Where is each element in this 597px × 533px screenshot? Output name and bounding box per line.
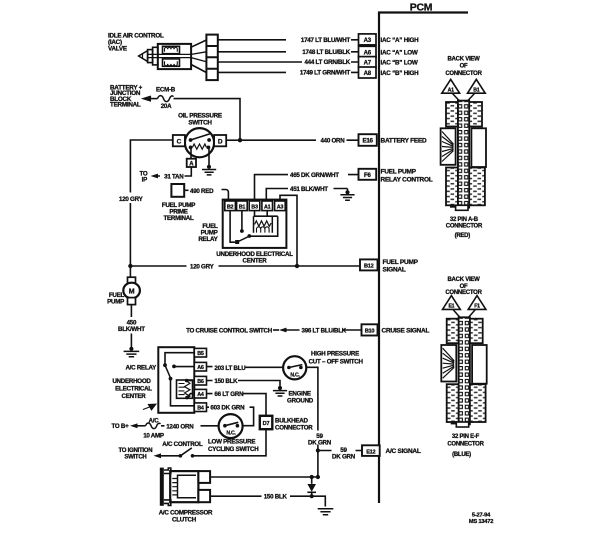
A/C relay coil [177, 379, 195, 400]
relay terminal B4 [194, 403, 206, 412]
PCM terminal E16 BATTERY FEED [359, 134, 428, 146]
svg-text:BULKHEAD: BULKHEAD [275, 417, 308, 424]
ground below oil pressure switch [202, 149, 216, 175]
wire 451 BLK/WHT from relay A1 to ground [266, 186, 347, 201]
32 pin A-B connector body [441, 101, 486, 211]
svg-text:1749 LT GRN/WHT: 1749 LT GRN/WHT [300, 70, 351, 77]
wire A to 31 TAN / TO IP [140, 167, 192, 184]
svg-text:A/C: A/C [149, 417, 160, 424]
svg-text:SIGNAL: SIGNAL [383, 267, 406, 274]
svg-text:D: D [218, 139, 223, 146]
terminal D [214, 135, 226, 146]
wire 1747 LT BLU/WHT to A3 [218, 37, 359, 44]
wire D7 to A/C control switch [194, 430, 266, 456]
svg-text:IAC “A” HIGH: IAC “A” HIGH [381, 37, 420, 44]
node diode bottom [310, 494, 314, 498]
svg-text:M: M [129, 289, 135, 296]
svg-text:F1: F1 [474, 304, 480, 310]
PCM boundary line [379, 13, 468, 504]
ground for 451 BLK/WHT [340, 189, 354, 201]
arrow to battery junction [144, 96, 152, 101]
svg-text:B1: B1 [473, 87, 479, 93]
PCM terminal B10 CRUISE SIGNAL [362, 324, 430, 335]
terminal C [173, 135, 185, 146]
svg-text:(RED): (RED) [455, 233, 471, 239]
svg-text:32 PIN E-F: 32 PIN E-F [452, 434, 480, 440]
back view of connector label (A-B) [445, 57, 482, 77]
svg-text:CONNECTOR: CONNECTOR [445, 71, 482, 77]
underhood electrical center label (A/C) [112, 378, 152, 400]
wire D to battery junction node [226, 139, 240, 141]
node A3/120 GRY junction [295, 264, 299, 268]
A/C relay box [158, 347, 194, 413]
wire 490 RED hook to relay B2 [222, 190, 229, 202]
relay internal switch [230, 211, 278, 244]
svg-text:UNDERHOOD: UNDERHOOD [112, 378, 151, 385]
oil pressure switch label [178, 112, 222, 126]
wire 150 BLK from clutch to ground [210, 494, 325, 507]
wire 203 LT BLU [207, 365, 284, 372]
svg-text:IAC “B” LOW: IAC “B” LOW [381, 60, 418, 67]
svg-text:IAC “A” LOW: IAC “A” LOW [381, 49, 418, 56]
svg-text:66 LT GRN: 66 LT GRN [214, 391, 244, 398]
svg-text:A3: A3 [364, 38, 372, 44]
PCM terminal A7 [359, 57, 418, 68]
node battery feed junction [238, 138, 242, 142]
svg-text:A/C CONTROL: A/C CONTROL [162, 441, 203, 448]
svg-text:203 LT BLU: 203 LT BLU [214, 365, 246, 372]
59 DK GRN label (vertical run) [308, 433, 332, 447]
svg-text:ENGINE: ENGINE [289, 390, 311, 397]
svg-text:120 GRY: 120 GRY [190, 264, 215, 271]
svg-text:A6: A6 [364, 50, 372, 56]
svg-text:RELAY: RELAY [198, 236, 218, 243]
svg-text:A/C COMPRESSOR: A/C COMPRESSOR [159, 510, 213, 517]
wire 1749 LT GRN/WHT to A8 [218, 70, 359, 77]
svg-text:A1: A1 [448, 87, 454, 93]
svg-text:CYCLING SWITCH: CYCLING SWITCH [208, 446, 259, 453]
svg-text:SWITCH: SWITCH [124, 454, 146, 460]
svg-text:20A: 20A [161, 103, 172, 110]
svg-text:E1: E1 [448, 304, 454, 310]
svg-text:BACK VIEW: BACK VIEW [447, 277, 480, 283]
low pressure cycling switch [208, 414, 259, 453]
svg-text:VALVE: VALVE [108, 45, 127, 52]
A/C fuse 10 AMP and TO B+ [111, 417, 218, 439]
svg-text:603 DK GRN: 603 DK GRN [210, 405, 245, 412]
svg-text:F6: F6 [364, 173, 371, 179]
svg-text:B5: B5 [197, 351, 204, 357]
PCM terminal B12 FUEL PUMP SIGNAL [360, 259, 419, 274]
fuse ECM-B 20A [152, 86, 176, 110]
wire 150 BLK to engine ground [207, 378, 281, 387]
relay terminal B3 [249, 201, 260, 211]
high pressure cut-off switch [283, 351, 363, 380]
svg-text:LOW PRESSURE: LOW PRESSURE [208, 438, 255, 445]
svg-text:HIGH PRESSURE: HIGH PRESSURE [311, 351, 359, 358]
PCM terminal A8 [359, 67, 420, 78]
svg-text:FUEL PUMP: FUEL PUMP [381, 168, 417, 175]
svg-text:A6: A6 [197, 365, 204, 371]
PCM terminal F6 FUEL PUMP RELAY CONTROL [359, 168, 433, 183]
svg-text:A8: A8 [364, 71, 372, 77]
wire 396 LT BLU/BLK to cruise control switch [186, 328, 361, 335]
A/C relay internal switch [163, 353, 194, 406]
A/C control switch [162, 441, 203, 457]
fuel pump motor [107, 266, 140, 305]
svg-text:GROUND: GROUND [287, 397, 314, 404]
svg-text:CRUISE SIGNAL: CRUISE SIGNAL [382, 328, 430, 335]
A/C compressor clutch [159, 468, 213, 524]
svg-text:E12: E12 [366, 449, 375, 455]
svg-text:5-27-94: 5-27-94 [472, 513, 491, 519]
svg-text:C: C [177, 139, 182, 146]
svg-text:CONNECTOR: CONNECTOR [446, 223, 483, 229]
fuel pump relay label [198, 223, 218, 243]
svg-text:444 LT GRN/BLK: 444 LT GRN/BLK [304, 59, 350, 66]
32 pin A-B connector caption [446, 217, 483, 239]
relay terminal B2 [225, 201, 236, 211]
svg-text:CUT – OFF SWITCH: CUT – OFF SWITCH [309, 359, 364, 366]
svg-text:A/C SIGNAL: A/C SIGNAL [386, 448, 421, 455]
svg-text:1748 LT BLU/BLK: 1748 LT BLU/BLK [302, 49, 350, 56]
svg-text:SWITCH: SWITCH [188, 119, 212, 126]
PCM terminal A6 [359, 46, 418, 57]
svg-text:10 AMP: 10 AMP [143, 432, 164, 439]
wire 59 DK GRN to E12 [318, 447, 362, 460]
svg-text:N.C.: N.C. [290, 372, 300, 378]
idle air control valve label [108, 33, 164, 53]
svg-text:DK GRN: DK GRN [332, 453, 356, 460]
svg-text:OF: OF [460, 64, 468, 70]
pin E1 pointer triangle [443, 296, 461, 310]
relay coil [254, 211, 278, 233]
svg-text:1240 ORN: 1240 ORN [166, 423, 194, 430]
relay terminal B1 [237, 201, 248, 211]
relay terminal B6 [194, 376, 206, 385]
svg-text:(BLUE): (BLUE) [452, 452, 471, 458]
wire 440 ORN to E16 [240, 138, 359, 145]
pointer leader lines [453, 310, 475, 319]
relay terminal A4 [194, 389, 206, 398]
svg-text:CLUTCH: CLUTCH [172, 517, 197, 524]
wire fuse to battery-feed vertical [174, 99, 241, 141]
svg-text:CONNECTOR: CONNECTOR [447, 441, 484, 447]
diode across clutch [307, 477, 316, 496]
fuel pump relay box [223, 200, 287, 248]
svg-text:TO B+: TO B+ [111, 423, 129, 430]
svg-text:A7: A7 [364, 61, 372, 67]
wire clutch feed [210, 476, 318, 478]
svg-text:TERMINAL: TERMINAL [110, 102, 141, 109]
svg-text:150 BLK: 150 BLK [214, 378, 238, 385]
svg-text:MS 13472: MS 13472 [469, 519, 493, 525]
PCM terminal A3 [359, 34, 420, 45]
svg-text:CENTER: CENTER [243, 258, 268, 265]
wire 450 BLK/WHT [118, 305, 145, 348]
wire HP switch to 59 DK GRN vertical [306, 367, 318, 477]
svg-text:31 TAN: 31 TAN [164, 173, 184, 180]
IAC connector block [191, 35, 218, 81]
svg-text:DK GRN: DK GRN [308, 439, 332, 446]
node clutch feed junction [316, 475, 320, 479]
relay terminal A1 [262, 201, 273, 211]
pin F1 pointer triangle [468, 296, 486, 310]
svg-text:B2: B2 [227, 204, 234, 210]
svg-text:A1: A1 [264, 204, 271, 210]
wire 66 LT GRN to bulkhead connector [207, 391, 267, 416]
node 59 DK GRN / E12 junction [316, 448, 320, 452]
relay terminal A3 [275, 201, 286, 211]
relay terminal A6 [194, 362, 206, 371]
svg-text:BLK/WHT: BLK/WHT [118, 326, 145, 333]
fuel pump prime terminal [162, 184, 214, 222]
svg-text:TERMINAL: TERMINAL [164, 215, 194, 222]
svg-text:E16: E16 [362, 138, 373, 145]
svg-text:A3: A3 [277, 204, 284, 210]
drawing footer MS 13472 [469, 513, 493, 525]
svg-text:B1: B1 [239, 204, 246, 210]
engine ground [273, 386, 314, 404]
wire 603 DK GRN to low pressure switch [207, 405, 254, 426]
svg-text:BACK VIEW: BACK VIEW [447, 57, 480, 63]
ground below clutch [318, 509, 334, 515]
terminal A [187, 149, 196, 167]
svg-text:ELECTRICAL: ELECTRICAL [115, 386, 152, 393]
node diode top [310, 475, 314, 479]
svg-text:FUEL PUMP: FUEL PUMP [383, 259, 419, 266]
svg-text:B4: B4 [197, 406, 204, 412]
wire 444 LT GRN/BLK to A7 [218, 59, 359, 66]
svg-text:150 BLK: 150 BLK [264, 494, 288, 501]
pin A1 pointer triangle [442, 79, 460, 93]
svg-text:TO CRUISE CONTROL SWITCH: TO CRUISE CONTROL SWITCH [186, 328, 273, 335]
svg-text:CENTER: CENTER [122, 393, 147, 400]
PCM terminal E12 A/C SIGNAL [362, 445, 421, 456]
svg-text:B3: B3 [251, 204, 258, 210]
svg-text:IAC “B” HIGH: IAC “B” HIGH [381, 70, 420, 77]
svg-text:CONNECTOR: CONNECTOR [275, 424, 313, 431]
svg-text:TO IGNITION: TO IGNITION [118, 448, 152, 454]
svg-text:OIL PRESSURE: OIL PRESSURE [178, 112, 222, 119]
wire C to 120 GRY vertical [130, 140, 172, 266]
svg-text:1747 LT BLU/WHT: 1747 LT BLU/WHT [301, 37, 351, 44]
wire 465 DK GRN/WHT from F6 to relay B3 [255, 172, 359, 201]
ground below fuel pump [124, 347, 140, 357]
svg-text:B6: B6 [197, 379, 204, 385]
underhood electrical center label [216, 251, 293, 265]
svg-text:PUMP: PUMP [107, 298, 124, 305]
svg-text:IP: IP [142, 177, 147, 184]
svg-text:490 RED: 490 RED [190, 188, 214, 195]
wire relay A3 to fuel pump signal line [280, 195, 297, 266]
svg-text:BATTERY FEED: BATTERY FEED [381, 138, 428, 145]
battery junction block terminal label [110, 85, 143, 109]
svg-text:B10: B10 [365, 329, 375, 335]
svg-text:32 PIN A-B: 32 PIN A-B [450, 217, 479, 223]
svg-text:ECM-B: ECM-B [156, 86, 176, 93]
node fuel pump tap [128, 264, 132, 268]
svg-text:B12: B12 [364, 263, 374, 269]
svg-text:D7: D7 [263, 421, 270, 427]
svg-text:PCM: PCM [410, 2, 433, 14]
wire 1748 LT BLU/BLK to A6 [218, 49, 359, 56]
svg-text:A4: A4 [197, 392, 204, 398]
svg-text:N.C.: N.C. [226, 431, 236, 437]
svg-text:396 LT BLU/BLK: 396 LT BLU/BLK [302, 328, 347, 335]
32 pin E-F connector body [441, 317, 486, 427]
oil pressure switch [185, 128, 214, 157]
svg-text:451 BLK/WHT: 451 BLK/WHT [290, 186, 328, 193]
svg-text:465 DK GRN/WHT: 465 DK GRN/WHT [290, 172, 339, 179]
bulkhead connector D7 [260, 416, 313, 432]
relay terminal B5 [194, 348, 206, 357]
pin B1 pointer triangle [468, 79, 486, 93]
wire to ignition switch [118, 448, 180, 460]
svg-text:RELAY CONTROL: RELAY CONTROL [381, 176, 433, 183]
32 pin E-F connector caption [447, 434, 484, 458]
idle air control valve [139, 44, 192, 69]
pointer leader lines [453, 94, 475, 102]
back view of connector label (E-F) [445, 277, 482, 296]
arrow to A/C relay box [143, 404, 156, 410]
wire 120 GRY horizontal to B12 [130, 264, 360, 271]
svg-text:A/C RELAY: A/C RELAY [125, 364, 157, 371]
svg-text:120 GRY: 120 GRY [119, 196, 144, 203]
svg-text:440 ORN: 440 ORN [320, 138, 345, 145]
